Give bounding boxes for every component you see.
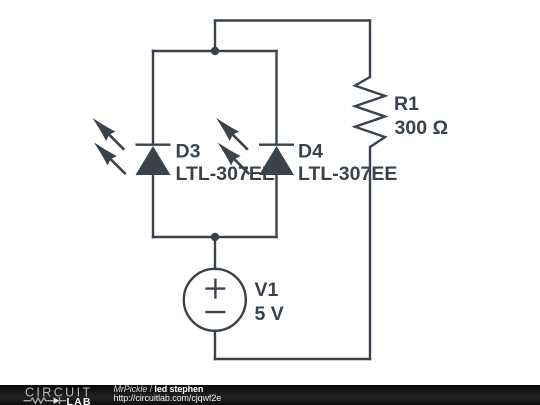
value LTL-307EE (D4)	[298, 163, 397, 185]
wire node B to V1 plus terminal	[214, 237, 216, 269]
label R1	[394, 93, 419, 115]
svg-text:LAB: LAB	[67, 396, 92, 405]
value 5 V	[255, 303, 284, 325]
wire top vertical into node A	[214, 21, 216, 52]
wire right vertical below R1	[369, 147, 371, 359]
label D3	[176, 141, 201, 163]
attribution author/title	[114, 385, 204, 394]
wire LED box top	[153, 50, 277, 52]
svg-text:V1: V1	[255, 279, 279, 301]
svg-text:5 V: 5 V	[255, 303, 284, 325]
wire bottom horizontal	[215, 358, 370, 360]
resistor R1	[355, 77, 385, 147]
svg-text:R1: R1	[394, 93, 419, 115]
svg-text:D4: D4	[298, 141, 323, 163]
wire D3 cathode (left branch lower)	[152, 175, 154, 237]
wire D4 cathode (right branch lower)	[275, 175, 277, 237]
label V1	[255, 279, 279, 301]
value LTL-307EE (D3)	[176, 163, 275, 185]
CircuitLab logo	[0, 385, 110, 405]
label D4	[298, 141, 323, 163]
attribution url	[114, 394, 222, 403]
wire D3 anode (left branch upper)	[152, 51, 154, 144]
footer bar	[0, 385, 540, 405]
node B junction dot (bottom)	[211, 233, 219, 241]
svg-text:D3: D3	[176, 141, 201, 163]
svg-text:LTL-307EE: LTL-307EE	[298, 163, 397, 185]
wire D4 anode (right branch upper)	[275, 51, 277, 144]
node A junction dot (top)	[211, 47, 219, 55]
wire top horizontal	[215, 19, 370, 21]
wire V1 minus terminal down	[214, 331, 216, 359]
svg-text:300 Ω: 300 Ω	[395, 117, 449, 139]
LED D3	[88, 113, 171, 179]
LED D4	[211, 113, 294, 179]
voltage source V1	[184, 269, 246, 331]
wire LED box bottom	[153, 236, 277, 238]
wire right vertical above R1	[369, 21, 371, 78]
value 300 Ω	[395, 117, 449, 139]
